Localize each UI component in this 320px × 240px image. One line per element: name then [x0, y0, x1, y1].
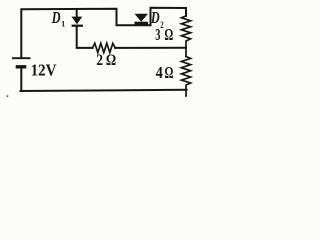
svg-text:4: 4 [156, 63, 164, 82]
svg-text:1: 1 [61, 19, 65, 28]
svg-text:3: 3 [155, 25, 160, 44]
svg-text:2: 2 [96, 52, 103, 69]
svg-text:2: 2 [160, 21, 164, 31]
svg-text:Ω: Ω [165, 63, 174, 82]
svg-text:Ω: Ω [106, 52, 116, 69]
svg-text:Ω: Ω [164, 25, 173, 44]
svg-text:D: D [51, 8, 61, 27]
svg-text:12V: 12V [31, 60, 57, 79]
